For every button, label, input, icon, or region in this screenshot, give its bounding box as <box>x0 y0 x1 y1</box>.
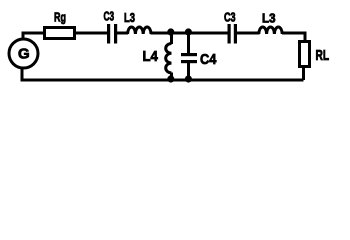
svg-text:L4: L4 <box>143 48 159 65</box>
svg-text:C4: C4 <box>200 51 217 68</box>
svg-text:Rg: Rg <box>54 10 66 25</box>
svg-text:L3: L3 <box>124 10 135 25</box>
svg-text:RL: RL <box>316 47 330 64</box>
svg-text:C3: C3 <box>104 9 115 24</box>
svg-text:G: G <box>18 46 30 63</box>
svg-text:L3: L3 <box>262 11 276 26</box>
svg-text:C3: C3 <box>224 9 236 24</box>
